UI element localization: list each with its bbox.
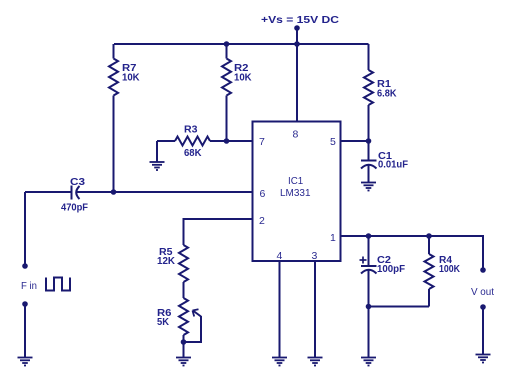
wire F in riser to C3 [24, 192, 26, 264]
op-amp IC1 LM331 body [253, 122, 341, 262]
wire pin 3 to ground [314, 261, 316, 358]
svg-text:+Vs = 15V DC: +Vs = 15V DC [261, 14, 339, 26]
ground (C2) [361, 358, 376, 366]
svg-text:12K: 12K [157, 255, 175, 267]
plus sign of C2 [360, 257, 367, 264]
svg-text:5: 5 [330, 136, 336, 148]
ground (pin 4) [272, 358, 287, 366]
svg-text:470pF: 470pF [61, 202, 89, 214]
svg-text:6.8K: 6.8K [377, 88, 397, 100]
junction +Vs bus [294, 41, 300, 47]
label R3 68K [184, 124, 202, 160]
resistor R1 [364, 44, 373, 141]
capacitor C3 [25, 186, 253, 200]
label R1 6.8K [377, 78, 397, 100]
label C1 0.01uF [378, 150, 409, 171]
label R6 5K [157, 307, 172, 328]
label R2 10K [234, 62, 252, 84]
wiper wire of R6 [184, 309, 202, 342]
svg-text:5K: 5K [157, 316, 169, 328]
ground (R3) [150, 162, 165, 170]
ground (F in) [18, 358, 33, 366]
svg-text:C3: C3 [70, 176, 85, 188]
svg-text:4: 4 [277, 250, 283, 262]
wire pin 4 to ground [279, 261, 281, 358]
svg-text:7: 7 [259, 136, 265, 148]
svg-text:10K: 10K [234, 72, 252, 84]
label F in [21, 280, 37, 292]
label R5 12K [157, 246, 175, 267]
node F in upper terminal [22, 263, 28, 269]
label C2 100pF [377, 254, 406, 275]
junction C2 bottom rail [366, 304, 372, 310]
resistor R4 [425, 236, 434, 307]
svg-text:R3: R3 [184, 124, 198, 136]
capacitor C2 (polarized) [361, 236, 377, 307]
wire F in terminal to ground [24, 304, 26, 358]
svg-text:10K: 10K [122, 72, 140, 84]
junction C2 top [366, 233, 372, 239]
ground (R6) [176, 358, 191, 366]
svg-text:0.01uF: 0.01uF [378, 159, 409, 171]
wire pin 1 to Vout [341, 236, 484, 268]
resistor R2 [222, 44, 231, 141]
node F in lower terminal [22, 301, 28, 307]
wire +Vs supply bus [114, 43, 369, 45]
junction R6 bottom / wiper [181, 339, 187, 345]
svg-text:68K: 68K [184, 147, 202, 159]
svg-text:IC1: IC1 [288, 175, 303, 187]
node +Vs terminal dot [294, 25, 300, 31]
ground (pin 3) [308, 358, 323, 366]
ground (C1) [361, 183, 376, 191]
resistor R5 [179, 245, 188, 298]
label R7 10K [122, 62, 140, 84]
label V out [471, 286, 494, 298]
resistor R3 [157, 137, 253, 146]
label C3 470pF [61, 176, 89, 214]
wire pin 5 to C1/R1 [341, 140, 369, 142]
wire C2 rail to ground [368, 307, 370, 358]
svg-text:3: 3 [312, 250, 318, 262]
svg-text:V out: V out [471, 286, 494, 298]
node Vout lower terminal [480, 304, 486, 310]
wire +Vs terminal stub down through bus to pin 8 [296, 28, 298, 122]
wire pin 2 to R5 [184, 219, 253, 245]
wire R3 left lead to ground [156, 141, 158, 162]
wire bottom rail C2 to R4 [369, 306, 430, 308]
svg-text:LM331: LM331 [280, 187, 311, 199]
svg-text:F in: F in [21, 280, 37, 292]
capacitor C1 [361, 141, 377, 183]
label R4 100K [439, 254, 460, 275]
square wave symbol [46, 278, 70, 291]
svg-text:8: 8 [293, 129, 299, 141]
junction R7 bottom at pin 6 wire [111, 189, 117, 195]
junction R2/R3 at pin 7 wire [224, 138, 230, 144]
svg-text:100K: 100K [439, 263, 460, 275]
svg-text:6: 6 [260, 188, 266, 200]
svg-text:1: 1 [330, 232, 336, 244]
resistor R6 (preset) [179, 298, 188, 358]
wire Vout terminal to ground [482, 307, 484, 355]
junction pin5/R1/C1 [366, 138, 372, 144]
svg-text:100pF: 100pF [377, 263, 406, 275]
ground (Vout) [476, 355, 491, 363]
junction R4 top [426, 233, 432, 239]
junction R2 top at bus [224, 41, 230, 47]
node Vout upper terminal [480, 267, 486, 273]
resistor R7 [109, 44, 118, 192]
svg-text:2: 2 [259, 215, 265, 227]
